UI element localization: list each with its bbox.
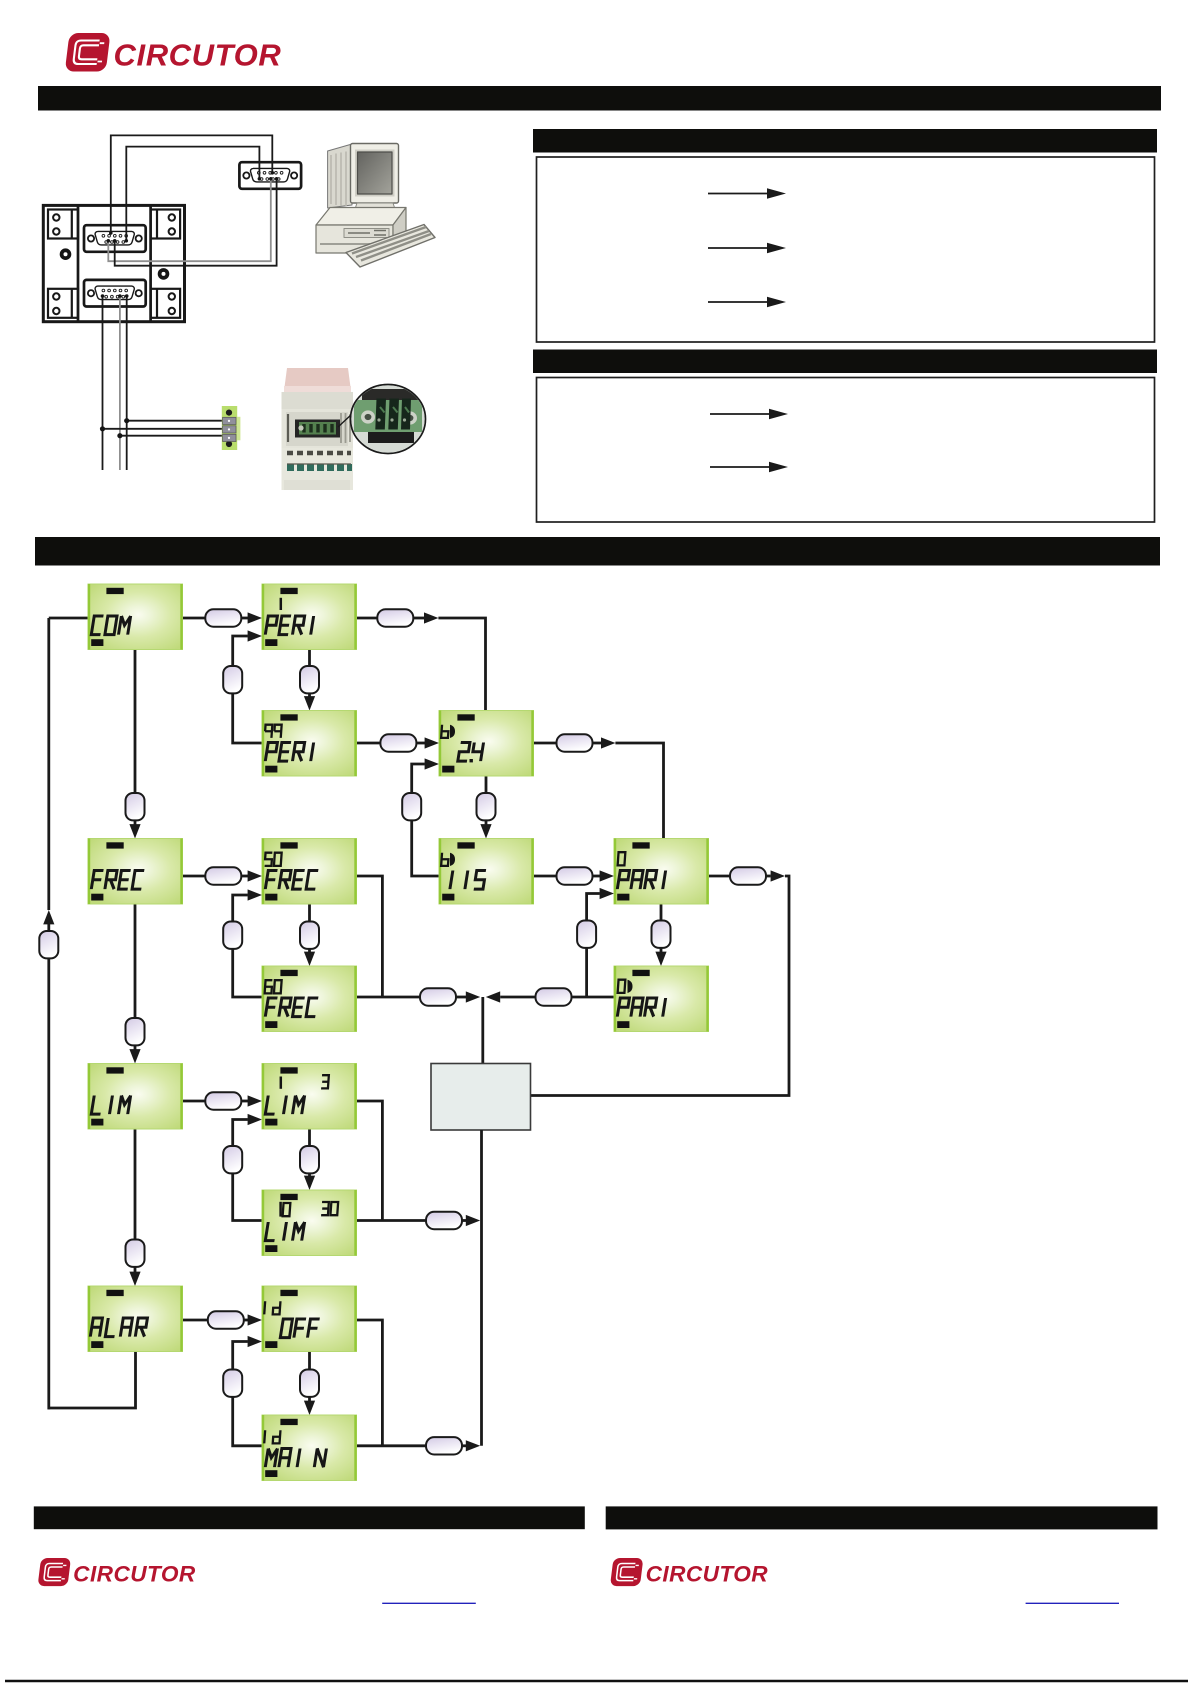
wire OFF down: [308, 1352, 311, 1370]
wire LIM 10-30 exit: [357, 1219, 427, 1222]
wire: [593, 875, 601, 878]
wire ESC loop vertical lower: [47, 958, 50, 1409]
wire: [308, 1397, 311, 1402]
arrow line: [708, 193, 767, 195]
key button: [477, 793, 496, 820]
wire RS485 A: [102, 296, 104, 470]
wire RS485 B: [126, 296, 128, 470]
wire 115 left: [412, 820, 439, 876]
lcd display PERI 99: [262, 711, 357, 777]
key button: [730, 867, 766, 884]
wire PARI loop up: [587, 894, 600, 921]
arrow into 50FREC: [248, 870, 262, 881]
key button: [223, 666, 242, 693]
arrow into ALAR: [129, 1272, 140, 1286]
arrow into PARI: [600, 870, 614, 881]
arrow into return line: [466, 1215, 480, 1226]
wire 50FREC exit elbow: [357, 876, 383, 997]
wire: [308, 1173, 311, 1178]
wire: [134, 820, 137, 826]
wire 2.4 down: [485, 776, 488, 793]
arrow line: [708, 301, 767, 303]
key button: [126, 1018, 145, 1045]
arrow into junction: [466, 991, 480, 1002]
key button: [126, 793, 145, 820]
lcd display baud 2.4: [439, 711, 534, 777]
wire branch to terminal pin 1: [127, 420, 222, 422]
arrow head: [769, 462, 788, 473]
wire: [47, 924, 50, 931]
key button: [577, 921, 596, 948]
DIN rail device photo: [282, 368, 354, 490]
lcd display LIM 1-3: [262, 1064, 357, 1130]
wire OFF exit elbow: [357, 1320, 383, 1446]
svg-text:CIRCUTOR: CIRCUTOR: [114, 38, 282, 73]
wire validation box down: [480, 1130, 483, 1446]
wire PERI exit: [357, 617, 378, 620]
wire PERI loop up: [233, 636, 248, 666]
arrow into LIM: [129, 1049, 140, 1063]
wire FREC to key: [183, 875, 206, 878]
wire LIM down: [308, 1129, 311, 1146]
header section bar: [38, 86, 1161, 111]
wire: [456, 996, 466, 999]
arrow into PARI lower: [600, 888, 614, 899]
arrow head: [769, 409, 788, 420]
wire: [660, 948, 663, 953]
arrow into MAIN: [304, 1401, 315, 1415]
lcd display FREC: [88, 839, 183, 905]
section bar (connection RS485): [533, 350, 1157, 374]
wire LIM exit elbow: [357, 1101, 383, 1221]
key button: [300, 1370, 319, 1397]
wire ALAR bottom return: [48, 1352, 136, 1409]
lcd display baud 115: [439, 839, 534, 905]
section bar (setup menu): [35, 537, 1160, 566]
arrow into PERI lower: [248, 630, 262, 641]
key button: [300, 666, 319, 693]
arrow right: [771, 870, 785, 881]
section bar (connection RS232): [533, 129, 1157, 153]
wire MAIN exit: [357, 1444, 427, 1447]
key button: [300, 922, 319, 949]
key button: [223, 1370, 242, 1397]
wire: [241, 1100, 248, 1103]
wire: [134, 1045, 137, 1050]
lcd display PARI: [614, 839, 709, 905]
arrow into PERI: [248, 612, 262, 623]
key button: [402, 793, 421, 820]
lcd display COM: [88, 584, 183, 650]
wire 99PERI left: [233, 693, 262, 743]
wire PARI down: [660, 904, 663, 921]
lcd display FREC 60: [262, 966, 357, 1032]
magnifier detail circle: [338, 385, 426, 456]
wire PARI loop down: [585, 948, 588, 997]
solder dots PC connector: [107, 171, 279, 243]
key button: [205, 867, 241, 884]
wire LIM to key: [183, 1100, 206, 1103]
key button: [126, 1240, 145, 1267]
frame box 2: [537, 378, 1155, 523]
arrow line: [708, 247, 767, 249]
key button: [205, 1092, 241, 1109]
arrow into 50FREC lower: [248, 889, 262, 900]
key button: [652, 921, 671, 948]
wire LIM 10-30 left: [233, 1173, 262, 1220]
arrow into PARI 0d: [655, 952, 666, 966]
arrow into return line: [466, 1440, 480, 1451]
wire PARI exit to validation box: [531, 876, 790, 1096]
wire LIM loop up: [233, 1120, 248, 1147]
arrow into 60FREC: [304, 952, 315, 966]
footer bar right: [606, 1506, 1158, 1529]
wire signal return (PC to device J1): [115, 180, 277, 266]
wire: [462, 1444, 467, 1447]
computer (PC) illustration: [316, 144, 435, 268]
wire GND (gray, PC to device J1): [108, 180, 270, 261]
lcd display LIM 10-30: [262, 1190, 357, 1256]
arrow into OFF lower: [248, 1336, 262, 1347]
key button: [223, 922, 242, 949]
lcd display PERI setup: [262, 584, 357, 650]
wire MAIN left: [233, 1397, 262, 1446]
arrow into 99PERI: [304, 696, 315, 710]
arrow right: [424, 612, 438, 623]
wire 60FREC exit: [357, 996, 421, 999]
lcd display ALAR MAIN: [262, 1415, 357, 1481]
wire: [500, 996, 535, 999]
wire 2.4 loop up: [412, 764, 425, 793]
key button: [420, 988, 456, 1005]
key button: [557, 867, 593, 884]
wire 2.4 exit: [534, 742, 557, 745]
key button: [377, 609, 413, 626]
arrow right: [601, 737, 615, 748]
key button: [208, 1311, 244, 1328]
wire FREC loop up: [233, 895, 248, 922]
svg-text:CIRCUTOR: CIRCUTOR: [73, 1562, 196, 1587]
DB9 connector J2 (device COM2): [84, 280, 146, 307]
key button: [426, 1437, 462, 1454]
panel screws: [60, 248, 170, 279]
wire ALAR to key: [183, 1319, 208, 1322]
lcd display ALAR OFF: [262, 1286, 357, 1352]
wire 99PERI exit: [357, 742, 381, 745]
wire COM to FREC: [134, 650, 137, 794]
wire TxD (device J1 to PC): [111, 135, 272, 233]
wire RxD (device J1 to PC): [126, 147, 259, 242]
wire to PARI 0d: [572, 996, 615, 999]
frame box 1: [537, 157, 1155, 342]
wire COM to key: [183, 617, 206, 620]
arrow line: [710, 466, 769, 468]
key button: [300, 1146, 319, 1173]
wire: [766, 875, 771, 878]
wire 115 exit: [534, 875, 557, 878]
CIRCUTOR logo: [38, 1558, 196, 1587]
DB9 connector J1 (device COM1): [84, 225, 146, 252]
arrow head: [767, 243, 786, 254]
wire junction down to validation box: [481, 997, 484, 1064]
lcd display LIM: [88, 1064, 183, 1130]
junction dots: [100, 294, 129, 438]
arrow into LIM 10-30: [304, 1176, 315, 1190]
wire: [308, 693, 311, 699]
wire: [462, 1219, 467, 1222]
validation box: [431, 1064, 531, 1131]
arrow into 115: [480, 824, 491, 838]
key button: [380, 734, 416, 751]
lcd display PARI odd: [614, 966, 709, 1032]
CIRCUTOR logo: [65, 33, 282, 73]
wire 60FREC left: [233, 949, 262, 997]
green terminal block (3 pole): [222, 406, 241, 450]
wire RS485 GND (gray): [119, 296, 121, 470]
wire: [308, 949, 311, 954]
arrow into LIM lower: [248, 1114, 262, 1125]
arrow head: [767, 188, 786, 199]
key button: [536, 988, 572, 1005]
svg-text:CIRCUTOR: CIRCUTOR: [646, 1562, 769, 1587]
lcd display FREC 50: [262, 839, 357, 905]
arrow up ESC: [43, 910, 54, 924]
wire LIM to ALAR: [134, 1129, 137, 1240]
wire: [134, 1267, 137, 1272]
wire FREC to LIM: [134, 904, 137, 1018]
link underline left: [382, 1602, 476, 1604]
wire ESC loop to COM: [49, 617, 88, 620]
link underline right: [1026, 1602, 1119, 1604]
device rear panel: [43, 205, 184, 321]
wire: [241, 875, 248, 878]
page bottom rule: [5, 1680, 1188, 1683]
wire: [244, 1319, 248, 1322]
arrow into LIM 1-3: [248, 1095, 262, 1106]
wire PARI exit: [709, 875, 731, 878]
wire ESC loop vertical upper: [47, 618, 50, 910]
key button: [426, 1212, 462, 1229]
arrow into junction from right: [486, 991, 500, 1002]
wire: [413, 617, 424, 620]
arrow into 2.4 lower: [425, 758, 439, 769]
wire branch to terminal pin 3: [120, 435, 222, 437]
arrow head: [767, 297, 786, 308]
wire: [593, 742, 602, 745]
DB9 connector (PC serial port): [239, 162, 301, 189]
key button: [223, 1146, 242, 1173]
wire: [241, 617, 248, 620]
wire branch to terminal pin 2: [103, 428, 223, 430]
arrow into OFF: [248, 1314, 262, 1325]
wire down into 2.4: [438, 618, 485, 711]
arrow into 2.4: [425, 737, 439, 748]
arrow into FREC: [129, 824, 140, 838]
arrow line: [710, 413, 769, 415]
wire ALAR loop up: [233, 1342, 248, 1370]
CIRCUTOR logo: [610, 1558, 768, 1587]
wire 50FREC down: [308, 904, 311, 922]
wire down into PARI: [615, 743, 663, 839]
wire: [416, 742, 425, 745]
key button: [205, 609, 241, 626]
wire: [485, 820, 488, 826]
lcd display ALAR: [88, 1286, 183, 1352]
key button: [557, 734, 593, 751]
footer bar left: [34, 1506, 585, 1529]
key button: [39, 931, 58, 958]
wire PERI down: [308, 650, 311, 667]
